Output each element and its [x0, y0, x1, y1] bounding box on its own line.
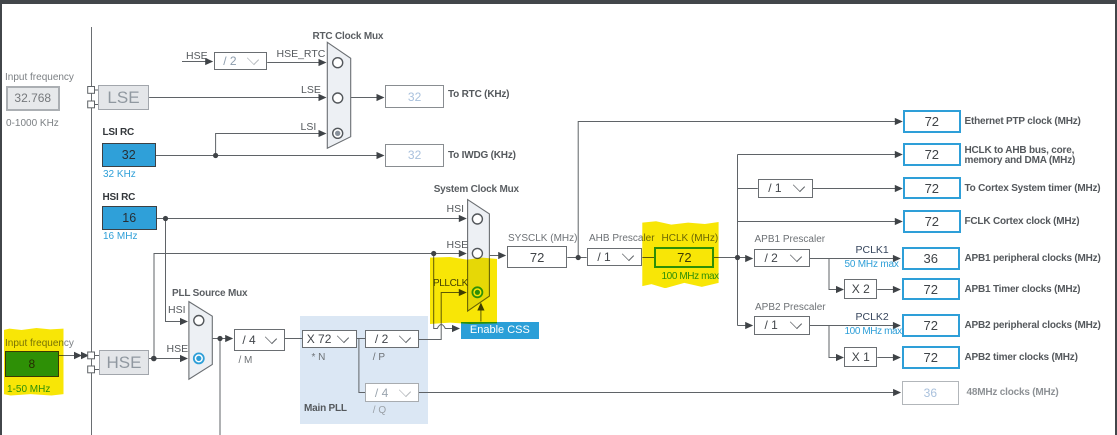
System mux radio HSI	[472, 214, 482, 224]
RTC mux radio LSI selected	[333, 128, 343, 138]
wire RTC mux output to RTC box	[351, 97, 379, 99]
label *N	[312, 353, 326, 363]
junction dot HCLK bus	[735, 255, 740, 260]
label 16 MHz	[103, 232, 137, 242]
label HSE stub	[186, 51, 208, 61]
wire LSE to RTC mux LSE input	[149, 97, 319, 99]
label Main PLL	[304, 404, 347, 414]
box To IWDG value 32	[385, 144, 444, 167]
wire APB2 branch to X1	[829, 326, 895, 358]
oscillator LSE	[98, 85, 149, 110]
label /Q	[373, 406, 386, 416]
wire PLL M vertical feed down	[219, 339, 221, 435]
arrow into 48MHz box	[893, 389, 901, 396]
highlight yellow HSE input	[4, 328, 64, 396]
arrow into RTC divider	[205, 58, 213, 65]
wire HSI row to System Clock Mux	[157, 218, 460, 220]
label HSE wire PLL	[167, 344, 189, 354]
wire SYSCLK to AHB prescaler	[567, 257, 586, 259]
arrow RTC mux LSI input	[319, 130, 327, 137]
wire APB1 branch to X2	[829, 259, 895, 290]
wire /M divider to X72	[285, 338, 302, 340]
arrow RTC mux HSE_RTC input	[319, 59, 327, 66]
PLL mux radio HSI	[194, 316, 204, 326]
box HCLK AHB 72	[903, 143, 961, 166]
label To Cortex System timer	[965, 184, 1101, 194]
PLL mux radio HSE selected	[194, 353, 204, 363]
multiplier X1	[844, 347, 877, 367]
junction dot LSI	[213, 153, 218, 158]
wire LSE square stubs	[95, 90, 99, 105]
wire bus to HCLK AHB row	[738, 154, 898, 156]
label /P	[373, 353, 385, 363]
arrow into X1	[836, 354, 844, 361]
divider AHB /1	[587, 248, 643, 267]
arrow PLL mux HSI input	[180, 318, 188, 325]
wire System Clock Mux output to SYSCLK	[489, 255, 500, 257]
wire APB2 prescaler to PCLK2 box	[810, 325, 895, 327]
arrow To RTC box	[377, 94, 385, 101]
label 100 MHz max APB2	[845, 327, 902, 337]
arrow up into mux from Enable CSS	[477, 303, 484, 311]
wire HSI riser to PLL Source Mux	[166, 219, 182, 322]
node square HSE bottom	[88, 366, 95, 373]
label HCLK to AHB bus	[965, 146, 1076, 165]
wire PLL mux output to /M divider	[212, 338, 226, 340]
arrow RTC mux LSE input	[319, 94, 327, 101]
arrow into APB1 timer box	[893, 286, 901, 293]
multiplier N X72	[302, 330, 356, 349]
wire vertical source bus	[91, 27, 93, 435]
label APB1 Timer clocks	[965, 285, 1081, 295]
label APB1 peripheral clocks	[965, 254, 1101, 264]
wire RTC divider to RTC mux HSE_RTC input	[267, 62, 319, 64]
label APB2 peripheral clocks	[965, 321, 1101, 331]
System mux radio PLLCLK selected	[472, 287, 482, 297]
label HCLK (MHz)	[662, 234, 719, 244]
oscillator HSI RC 16	[102, 206, 158, 230]
divider Cortex /1	[758, 179, 813, 198]
wire HCLK to APB bus	[714, 257, 747, 259]
node square LSE top	[88, 87, 95, 94]
junction dot HSE	[151, 356, 157, 362]
arrow HCLK AHB row	[895, 151, 903, 158]
box APB2 timer 72	[902, 346, 961, 369]
box APB1 peripheral 36	[902, 247, 961, 270]
wire LSI riser to RTC mux LSI input	[216, 134, 319, 156]
arrow PLL mux HSE input	[180, 355, 188, 362]
wire drop from N output to /Q divider	[359, 339, 366, 393]
label Ethernet PTP clock	[965, 117, 1081, 127]
oscillator HSE	[99, 350, 149, 375]
wire HSE riser to System Clock Mux HSE input	[154, 254, 460, 359]
wire bus to FCLK row	[738, 221, 898, 223]
wire APB vertical bus	[737, 155, 739, 326]
wire Enable CSS up arrow line	[480, 309, 482, 322]
wire HSE square stubs	[95, 356, 100, 370]
label System Clock Mux	[434, 185, 519, 195]
box SYSCLK 72	[507, 246, 567, 268]
label 50 MHz max	[845, 260, 899, 270]
frame top bar	[0, 0, 1117, 4]
arrow To IWDG box	[377, 152, 385, 159]
arrow double head 2 HSE input	[81, 352, 89, 360]
box LSE input frequency 32.768	[6, 86, 60, 112]
wire HSE stub to RTC divider	[182, 61, 206, 63]
System mux radio HSE	[472, 248, 482, 258]
arrow FCLK row	[895, 218, 903, 225]
label FCLK Cortex clock	[965, 217, 1080, 227]
node square LSE bottom	[88, 101, 95, 108]
label /M	[239, 356, 253, 366]
label AHB Prescaler	[589, 234, 655, 244]
wire APB1 prescaler to PCLK1 box	[810, 258, 895, 260]
arrow double head 1 HSE input	[74, 352, 82, 360]
Main PLL panel	[300, 316, 428, 425]
highlight yellow PLLCLK	[430, 257, 498, 324]
wire AHB prescaler to HCLK	[642, 257, 654, 259]
label LSE wire	[301, 85, 321, 95]
wire green HSE input to squares	[59, 355, 75, 357]
label APB2 Prescaler	[755, 303, 826, 313]
divider HSE_RTC /2	[214, 52, 268, 70]
arrow into /M divider	[225, 335, 233, 342]
divider /P	[365, 330, 418, 349]
label 1-50 MHz	[7, 385, 50, 395]
oscillator LSI RC 32	[102, 143, 157, 167]
RTC mux radio LSE	[333, 93, 343, 103]
label 100 MHz max HCLK	[662, 272, 719, 282]
label APB1 Prescaler	[755, 235, 826, 245]
RTC mux radio HSE_RTC	[333, 58, 343, 68]
frame left border	[0, 0, 2, 435]
System Clock Mux body	[468, 200, 490, 312]
arrow into APB1 prescaler	[745, 255, 753, 262]
divider APB1 /2	[754, 249, 810, 268]
label To IWDG (KHz)	[448, 151, 516, 161]
label HSI wire sys	[447, 204, 465, 214]
arrow System mux HSE input	[459, 250, 467, 257]
wire X72 to /P divider	[357, 338, 366, 340]
box Cortex timer 72	[903, 177, 961, 200]
label SYSCLK (MHz)	[508, 234, 577, 244]
wire LSI row to IWDG	[156, 155, 379, 157]
wire CSS from HSE line to Enable CSS with hop	[434, 254, 453, 329]
arrow into APB2 timer box	[893, 354, 901, 361]
label PLL Source Mux	[172, 289, 247, 299]
junction dot PLL M	[217, 336, 222, 341]
label HSI RC	[103, 193, 136, 203]
arrow into X2	[836, 286, 844, 293]
label PLLCLK wire	[433, 279, 468, 289]
label APB2 timer clocks	[965, 353, 1078, 363]
arrow into APB2 prescaler	[745, 322, 753, 329]
wire bus to cortex prescaler	[738, 188, 898, 190]
wire bus to APB2 prescaler	[738, 325, 748, 327]
junction dot CSS on HSE line	[431, 251, 436, 256]
junction dot SYSCLK	[576, 255, 581, 260]
label HSE wire sys	[447, 240, 469, 250]
wire PLLCLK from /P to System Clock Mux	[419, 293, 460, 340]
arrow into APB1 peripheral box	[893, 255, 901, 262]
box APB1 timer 72	[902, 278, 961, 301]
divider /M	[234, 329, 285, 351]
arrow System mux HSI input	[459, 215, 467, 222]
divider /Q disabled	[365, 383, 418, 403]
node square HSE top	[88, 352, 95, 359]
multiplier X2	[844, 279, 877, 300]
box APB2 peripheral 72	[902, 314, 961, 337]
label PCLK2	[856, 312, 889, 322]
wire HSE box to PLL Source Mux	[149, 358, 181, 360]
box Ethernet PTP 72	[903, 110, 961, 133]
box HCLK 72	[654, 247, 714, 269]
arrow into Enable CSS	[452, 325, 460, 332]
label LSI wire	[301, 122, 317, 132]
arrow Cortex timer row	[895, 185, 903, 192]
box To RTC value 32	[385, 85, 444, 108]
label PCLK1	[856, 245, 889, 255]
button Enable CSS	[461, 322, 539, 339]
arrow System mux PLLCLK input	[459, 289, 467, 296]
box FCLK 72	[903, 210, 961, 233]
label LSI RC	[103, 128, 135, 138]
wire SYSCLK riser to Ethernet row	[578, 122, 897, 258]
label 32 KHz	[103, 170, 136, 180]
label 48MHz clocks	[967, 388, 1059, 398]
box HSE input frequency 8	[5, 351, 59, 377]
wire /Q divider to 48MHz box	[419, 392, 896, 394]
arrow into APB2 peripheral box	[893, 322, 901, 329]
box 48MHz clocks 36	[902, 381, 959, 405]
junction dot HSI	[163, 216, 168, 221]
label HSI wire PLL	[168, 305, 186, 315]
label To RTC (KHz)	[448, 90, 509, 100]
divider APB2 /1	[754, 316, 810, 335]
label Input frequency top	[5, 73, 74, 83]
frame right border	[1115, 0, 1117, 435]
PLL Source Mux body	[189, 302, 212, 380]
label RTC Clock Mux	[313, 32, 384, 42]
RTC Clock Mux body	[327, 42, 350, 148]
label Input frequency bottom	[5, 339, 74, 349]
label HSE_RTC	[277, 49, 326, 59]
arrow into SYSCLK box	[498, 252, 506, 259]
highlight yellow HCLK	[642, 221, 718, 288]
arrow Ethernet PTP row	[895, 118, 903, 125]
label 0-1000 KHz	[6, 119, 59, 129]
